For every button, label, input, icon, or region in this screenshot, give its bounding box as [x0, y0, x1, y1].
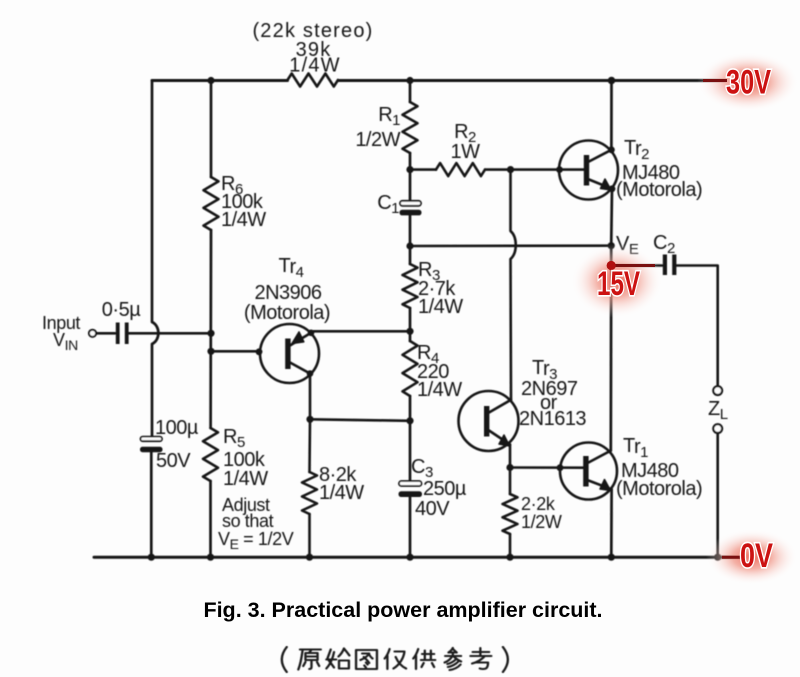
wire: ZL bottom terminal to ground rail — [716, 433, 719, 557]
wire: C3 bottom to ground rail — [409, 497, 412, 557]
hanzi tu 图 — [356, 650, 377, 669]
label R1 1/2W — [355, 104, 400, 151]
wire: horizontal feedback line C1 junction to VE node — [410, 244, 611, 247]
label R5 100k 1/4W — [223, 426, 268, 490]
svg-text:1/4W: 1/4W — [289, 55, 340, 77]
wire: Tr1 emitter down to ground rail — [610, 489, 613, 557]
resistor 2.2k 1/2W — [503, 494, 518, 534]
label Tr3 2N697 or 2N1613 — [519, 357, 586, 430]
capacitor C1 (plates) — [400, 201, 422, 216]
svg-text:2N1613: 2N1613 — [519, 408, 586, 430]
svg-text:Tr2: Tr2 — [624, 137, 649, 163]
wire: Tr3 collector column x=510.5 from R2 junction, hop over feedback line, down to Tr3 — [511, 170, 516, 400]
svg-text:30V: 30V — [726, 64, 771, 102]
resistor R5 100k 1/4W — [203, 428, 218, 481]
svg-text:R5: R5 — [223, 426, 245, 451]
resistor R6 100k 1/4W — [204, 177, 219, 230]
wire: R2 right lead / Tr2 base lead — [485, 168, 585, 171]
svg-text:Fig. 3. Practical power amplif: Fig. 3. Practical power amplifier circui… — [203, 598, 602, 622]
label 2.2k 1/2W — [521, 494, 562, 532]
svg-text:(Motorola): (Motorola) — [244, 302, 330, 324]
hanzi shi 始 — [326, 649, 349, 669]
transistor Tr2 MJ480 NPN — [559, 141, 618, 200]
wire: 2.2k bottom to ground rail — [509, 534, 512, 557]
transistor Tr1 MJ480 NPN — [560, 443, 617, 500]
wire: +30V top supply rail — [152, 79, 725, 82]
wire: 2.2k top lead from junction — [509, 468, 512, 495]
svg-text:1/4W: 1/4W — [417, 379, 462, 401]
svg-text:ZL: ZL — [708, 398, 728, 423]
svg-text:Tr1: Tr1 — [623, 435, 648, 461]
resistor R1 1/2W — [403, 102, 418, 153]
label R4 220 1/4W — [417, 342, 462, 401]
wire: R2 left lead — [410, 168, 436, 171]
svg-text:2N3906: 2N3906 — [254, 282, 321, 304]
wire: VE tap to C2 (dark red overlay portion drawn later) — [611, 264, 662, 267]
svg-text:50V: 50V — [156, 450, 191, 472]
wire: R5 bottom to ground rail — [209, 481, 212, 557]
wire: R6/R5 column x=211, rail to R6 — [210, 81, 213, 178]
wire: R1 bottom to R2 junction to C1 top — [409, 153, 412, 201]
hanzi jin 仅 — [385, 649, 406, 669]
label R6 100k 1/4W — [221, 173, 266, 231]
svg-text:(Motorola): (Motorola) — [616, 179, 702, 201]
svg-text:1/4W: 1/4W — [418, 296, 463, 318]
capacitor C2 output coupling — [663, 255, 677, 276]
svg-text:0·5µ: 0·5µ — [102, 299, 141, 321]
junction dots top rail — [207, 77, 615, 85]
capacitor 100u 50V electrolytic — [140, 437, 163, 453]
wire: 0V bottom ground rail — [94, 556, 741, 559]
label Adjust so that VE=1/2V — [218, 495, 294, 552]
svg-text:1/4W: 1/4W — [221, 209, 266, 231]
svg-text:(Motorola): (Motorola) — [616, 478, 702, 500]
hanzi can 参 — [445, 648, 462, 670]
transistor Tr4 2N3906 PNP — [256, 324, 319, 383]
svg-text:15V: 15V — [597, 265, 640, 303]
label Input VIN — [42, 313, 80, 353]
wire: left column x=152 from 100u cap bottom to ground rail — [150, 452, 153, 557]
wire: main column x=410, rail to R1 — [409, 81, 412, 103]
capacitor C3 250u 40V — [399, 481, 423, 497]
svg-text:40V: 40V — [415, 498, 450, 520]
label (22k stereo) 39k 1/4W — [252, 20, 373, 77]
resistor 39k 1/4W (22k stereo) — [288, 74, 339, 87]
wire: 8.2k bottom to ground rail — [308, 514, 311, 557]
label R2 1W — [451, 121, 481, 163]
svg-text:0V: 0V — [740, 537, 773, 575]
fullwidth close paren — [503, 647, 508, 672]
wire: left column x=152 top-rail corner down to 100u cap, with crossover hop over input wire — [152, 81, 158, 438]
wire: C1 bottom to VE-wire junction to R3 top — [409, 216, 412, 265]
label 8.2k 1/4W — [319, 464, 364, 504]
svg-text:1/2W: 1/2W — [355, 129, 400, 151]
wire: 8.2k junction to R4/C3 junction — [310, 419, 410, 421]
node 0V annotation — [706, 529, 798, 585]
svg-text:VE = 1/2V: VE = 1/2V — [218, 529, 294, 552]
wire: C2 right plate to output corner and down to load ZL — [677, 266, 718, 387]
wire: R4 bottom to Tr3-base junction to C3 top — [409, 396, 412, 481]
label Tr4 2N3906 (Motorola) — [244, 255, 330, 324]
wire: Tr2 collector column from top rail — [610, 81, 613, 150]
svg-text:R1: R1 — [378, 104, 400, 129]
label 100u 50V — [155, 417, 199, 472]
svg-text:1/2W: 1/2W — [521, 512, 562, 532]
wire: Tr3 emitter drop to 2.2k junction — [509, 445, 512, 468]
wire: Tr4 emitter lead to R3/R4 junction — [312, 330, 411, 333]
wire: input line from terminal to 0.5u cap — [96, 332, 115, 335]
label R3 2.7k 1/4W — [418, 259, 463, 318]
junction dots ground rail — [148, 554, 722, 561]
wire: Tr1 base lead from 2.2k junction — [510, 466, 584, 469]
svg-text:250µ: 250µ — [423, 478, 467, 500]
junction dots middle — [207, 146, 615, 471]
resistor R4 220 1/4W — [403, 341, 418, 396]
input terminal circle — [89, 330, 96, 337]
caption Chinese: （原始图仅供参考） drawn as strokes — [282, 647, 508, 672]
svg-text:Tr4: Tr4 — [279, 255, 304, 281]
load ZL terminals — [713, 386, 722, 433]
svg-text:C2: C2 — [653, 232, 675, 257]
svg-text:so that: so that — [222, 511, 274, 531]
svg-text:C1: C1 — [377, 192, 399, 217]
wire: input line from 0.5u cap to R6/R5 column junction — [129, 332, 212, 335]
hanzi yuan 原 — [298, 650, 321, 670]
wire: 8.2k top lead from junction — [308, 419, 311, 472]
label Tr1 MJ480 (Motorola) — [616, 435, 702, 500]
wire: R6 bottom through input junction and Tr4-base junction to R5 top — [209, 230, 212, 428]
wire: Tr2 emitter down through VE node and 15V tap to Tr1 collector — [611, 189, 612, 451]
transistor Tr3 2N697 NPN — [459, 391, 519, 451]
wire: R3 bottom to Tr4-emitter junction to R4 top — [409, 308, 412, 341]
resistor 8.2k 1/4W — [302, 472, 317, 514]
capacitor 0.5u input coupling — [116, 323, 129, 345]
svg-text:VIN: VIN — [53, 330, 78, 353]
svg-text:1/4W: 1/4W — [223, 468, 268, 490]
wire: Tr4 base lead — [211, 350, 261, 353]
hanzi gong 供 — [413, 649, 435, 669]
label C3 250u 40V — [411, 456, 467, 520]
svg-text:1/4W: 1/4W — [319, 482, 364, 504]
wire: Tr4 collector drop to 8.2k junction — [309, 374, 312, 420]
node 30V annotation — [697, 52, 799, 112]
svg-text:1W: 1W — [451, 141, 481, 163]
resistor R2 1W — [436, 163, 485, 176]
resistor R3 2.7k 1/4W — [403, 264, 418, 308]
svg-text:2·2k: 2·2k — [521, 494, 556, 514]
svg-text:100µ: 100µ — [155, 417, 199, 439]
hanzi kao 考 — [470, 648, 491, 669]
fullwidth open paren — [282, 647, 287, 672]
node 15V annotation — [571, 244, 663, 318]
label Tr2 MJ480 (Motorola) — [616, 137, 702, 201]
